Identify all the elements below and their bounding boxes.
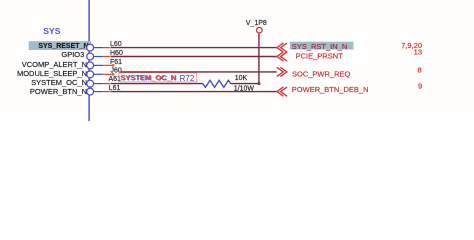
- off-page port POWER_BTN_DEB_N: [277, 87, 287, 96]
- dangling wire row3: [103, 64, 113, 66]
- svg-text:8: 8: [418, 65, 422, 74]
- wire net SYS_RST_IN_N: [111, 47, 277, 49]
- svg-text:10K: 10K: [235, 75, 248, 82]
- pin bubble row6: [87, 88, 94, 95]
- svg-text:L60: L60: [110, 41, 122, 48]
- resistor R72 selection box: [119, 73, 197, 82]
- pin segment row6: [94, 91, 104, 93]
- svg-text:9: 9: [418, 82, 422, 91]
- resistor R72 body: [203, 80, 231, 87]
- svg-text:POWER_BTN_DEB_N: POWER_BTN_DEB_N: [292, 85, 369, 94]
- svg-text:SOC_PWR_REQ: SOC_PWR_REQ: [292, 69, 351, 78]
- svg-text:L61: L61: [109, 85, 121, 92]
- pin bubble row2: [87, 53, 94, 60]
- wire hot segment row1: [103, 47, 110, 49]
- svg-text:PCIE_PRSNT: PCIE_PRSNT: [296, 52, 344, 61]
- off-page port PCIE_PRSNT: [277, 52, 287, 61]
- pin segment row2: [94, 56, 104, 58]
- svg-text:SYS: SYS: [43, 26, 60, 36]
- pin segment row5: [94, 83, 104, 85]
- svg-text:13: 13: [414, 47, 422, 56]
- junction dot V_1P8 / R72: [257, 82, 260, 85]
- off-page port SYS_RST_IN_N: [277, 43, 287, 52]
- pin bubble row1: [87, 44, 94, 51]
- svg-text:SYS_RESET_N: SYS_RESET_N: [38, 43, 88, 50]
- wire V_1P8 vertical: [258, 35, 260, 84]
- svg-text:R72: R72: [180, 74, 195, 83]
- svg-text:H60: H60: [110, 50, 123, 57]
- symbol SYS block right edge: [88, 0, 90, 121]
- wire net POWER_BTN_DEB_N: [111, 91, 277, 93]
- svg-text:SYSTEM_OC_N: SYSTEM_OC_N: [31, 78, 87, 87]
- wire hot segment row6: [103, 91, 110, 93]
- wire net SOC_PWR_REQ: [122, 71, 277, 73]
- pin segment row1: [94, 47, 104, 49]
- wire hot segment row2: [103, 56, 110, 58]
- svg-text:1/10W: 1/10W: [234, 85, 255, 92]
- power symbol V_1P8 circle: [257, 27, 263, 33]
- pin bubble row4: [87, 71, 94, 78]
- svg-text:POWER_BTN_N: POWER_BTN_N: [30, 87, 87, 96]
- svg-text:SYS_RST_IN_N: SYS_RST_IN_N: [292, 42, 347, 51]
- pin segment row3: [94, 64, 104, 66]
- dangling wire row4: [103, 73, 113, 75]
- highlight on pin name SYS_RESET_N: [29, 41, 91, 50]
- pin segment row4: [94, 73, 104, 75]
- pin bubble row3: [87, 62, 94, 69]
- svg-text:SYSTEM_OC_N: SYSTEM_OC_N: [120, 73, 176, 82]
- off-page port SOC_PWR_REQ: [277, 67, 287, 76]
- svg-text:F61: F61: [110, 59, 122, 66]
- wire net PCIE_PRSNT: [111, 56, 277, 58]
- dangling end marker SOC_PWR_REQ wire: [120, 71, 122, 73]
- pin bubble row5: [87, 80, 94, 87]
- svg-text:V_1P8: V_1P8: [246, 20, 267, 27]
- wire hot segment row5: [103, 83, 110, 85]
- svg-text:GPIO3: GPIO3: [61, 50, 84, 59]
- svg-text:MODULE_SLEEP_N: MODULE_SLEEP_N: [17, 69, 87, 78]
- highlight on net name SYS_RST_IN_N: [290, 42, 354, 50]
- wire R72 right lead to V_1P8: [231, 83, 260, 85]
- svg-text:VCOMP_ALERT_N: VCOMP_ALERT_N: [22, 60, 87, 69]
- wire net SYSTEM_OC_N to R72: [111, 83, 203, 85]
